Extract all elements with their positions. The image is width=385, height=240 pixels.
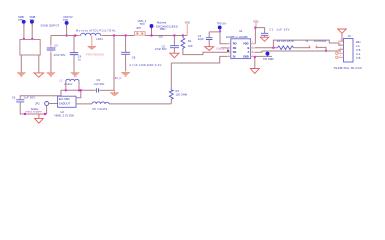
svg-text:L2: L2 (60, 79, 63, 83)
svg-text:3: 3 (228, 51, 229, 53)
ground open triangle under C4 (205, 47, 214, 51)
svg-text:4: 4 (228, 55, 229, 57)
wire VDD to C1 (255, 28, 264, 34)
power flag PROVISIONAL (86, 36, 105, 57)
svg-text:C1 .1uF 50V: C1 .1uF 50V (269, 28, 290, 32)
pin numbers U1 (228, 42, 253, 57)
svg-text:7: 7 (252, 46, 253, 48)
wire module pin4 down (38, 55, 40, 73)
svg-text:120 OHM: 120 OHM (176, 92, 188, 96)
wire RE tie (221, 48, 228, 52)
svg-text:R2 120 1/8 W: R2 120 1/8 W (277, 39, 294, 43)
junction bottom wire 2 (44, 113, 46, 115)
test point TP9 (217, 21, 228, 32)
svg-text:LDF1: LDF1 (96, 37, 103, 41)
test point TP4 VDD_2 (138, 19, 154, 36)
svg-text:C9: C9 (97, 78, 101, 82)
ground arrow under C7 (71, 73, 80, 76)
power flag VDD right (253, 20, 259, 28)
svg-text:27uF 50V: 27uF 50V (155, 47, 167, 51)
svg-text:CAL_1: CAL_1 (216, 47, 224, 51)
resistor R2 (277, 39, 294, 49)
terminal block J3 (344, 34, 354, 62)
junction on module top right (31, 38, 33, 40)
wire U1 A line (255, 49, 344, 52)
svg-text:TP9 IO+: TP9 IO+ (217, 21, 228, 25)
oscillator U2 box (58, 96, 76, 107)
svg-text:VDD: VDD (243, 41, 249, 45)
svg-text:2: 2 (340, 44, 341, 46)
pin stubs U1 right (251, 44, 255, 57)
wire R4 to U1 DI (171, 56, 227, 89)
inductor 38 OHMS (92, 102, 109, 111)
wire R2 to J1 (294, 47, 309, 49)
svg-text:GNDOUT: GNDOUT (59, 102, 71, 106)
svg-text:1: 1 (340, 40, 341, 42)
ground open triangle (34, 73, 44, 77)
svg-text:C A: C A (356, 52, 360, 56)
jumper JP2 (31, 101, 58, 110)
svg-text:TERMINAL BLOCK: TERMINAL BLOCK (334, 66, 363, 70)
pin numbers J3 (340, 40, 341, 58)
svg-text:PBD: PBD (160, 27, 166, 31)
jumper J1 (306, 39, 327, 48)
svg-text:TPI GND: TPI GND (263, 57, 274, 61)
wire U2 vdd pin (76, 90, 81, 97)
part text Molveta (156, 20, 178, 31)
svg-text:JUMPER: JUMPER (314, 39, 327, 43)
ground open triangle under C1 (260, 37, 268, 41)
svg-text:C3: C3 (54, 44, 58, 48)
junction osc feed (113, 34, 115, 36)
chassis ground J3 (338, 29, 347, 41)
svg-text:TP4: TP4 (140, 22, 145, 26)
pin stubs U1 left (227, 44, 231, 57)
junction VDD (254, 26, 256, 28)
wire C6 bottom (20, 102, 46, 114)
svg-text:B: B (248, 46, 250, 50)
wire TP5 to module (23, 24, 25, 39)
junction C7 rail (74, 34, 76, 36)
junction A line (325, 50, 327, 52)
svg-text:.1uF 50V: .1uF 50V (93, 82, 104, 86)
svg-text:C6: C6 (12, 95, 16, 99)
svg-text:VDD: VDD (185, 21, 191, 25)
capacitor C6 (12, 95, 36, 102)
svg-text:27uF 50V: 27uF 50V (54, 53, 66, 57)
svg-text:1u: 1u (78, 57, 81, 61)
svg-text:DI: DI (233, 54, 236, 58)
ground open triangle U1 GND (250, 69, 259, 74)
svg-text:JP2: JP2 (35, 101, 40, 105)
test point TP5 (18, 15, 26, 26)
capacitor C4 22pF (198, 32, 213, 47)
svg-text:+5D_D: +5D_D (113, 76, 121, 80)
svg-text:Monota MTDLP1117DHL: Monota MTDLP1117DHL (76, 28, 116, 32)
svg-text:A: A (248, 50, 250, 54)
capacitor C9 series (93, 78, 104, 92)
wire VDD to U1 pin (254, 28, 256, 44)
test point TP8 GND (263, 52, 274, 62)
svg-text:38 OHMS: 38 OHMS (92, 107, 108, 111)
junction bottom wire (24, 113, 26, 115)
svg-text:E/O VDD: E/O VDD (59, 97, 70, 101)
resistor R4 (169, 89, 187, 104)
ground open triangle bottom (35, 114, 44, 123)
svg-text:C B: C B (356, 48, 361, 52)
svg-text:Solder: Solder (31, 107, 39, 111)
svg-text:L A: L A (356, 44, 360, 48)
ground arrow filled (17, 73, 26, 76)
wire TP2 to module (31, 24, 33, 39)
pin stubs J3 (338, 41, 344, 57)
wire TP6 to rail (66, 25, 68, 36)
svg-text:RE: RE (233, 46, 237, 50)
svg-text:4: 4 (340, 52, 341, 54)
svg-text:J1: J1 (306, 39, 309, 43)
svg-text:8: 8 (252, 42, 253, 44)
ground arrow under C3 (47, 73, 56, 76)
junction coil left (65, 89, 67, 91)
module PS1 box (20, 40, 40, 56)
svg-text:GND: GND (243, 54, 249, 58)
svg-text:2: 2 (228, 46, 229, 48)
svg-text:PROVISIONAL: PROVISIONAL (86, 52, 105, 56)
wire J1 to A line (318, 47, 326, 50)
power flag VDD left (185, 21, 191, 36)
op-amp U1 transceiver (226, 29, 251, 59)
wire U1 GND (255, 55, 272, 57)
capacitor C7 (70, 36, 82, 73)
test point TP2 (30, 15, 36, 26)
wire C9 to arrow (99, 89, 114, 91)
svg-text:30KB DEPOT: 30KB DEPOT (41, 23, 60, 27)
test point TP6 (63, 15, 73, 27)
svg-text:5: 5 (252, 55, 253, 57)
capacitor C3 (47, 36, 66, 73)
svg-text:10K: 10K (188, 44, 193, 48)
wire U1 B line (255, 47, 278, 49)
svg-text:RO: RO (233, 41, 237, 45)
wire R1 to U1 DE (183, 50, 227, 55)
junction B branch (272, 47, 274, 49)
svg-text:Molveta: Molveta (157, 20, 167, 24)
svg-text:C8: C8 (132, 56, 136, 60)
junction TP6 rail (65, 34, 67, 36)
svg-text:U1: U1 (239, 29, 243, 33)
svg-text:4.7uF LOW ESR 6.3V: 4.7uF LOW ESR 6.3V (129, 63, 162, 67)
capacitor C5 (155, 34, 179, 53)
wire U2 out (76, 103, 171, 105)
capacitor C1 (261, 28, 290, 38)
svg-text:JP5: JP5 (136, 26, 141, 30)
svg-text:WH: WH (356, 40, 360, 44)
wire RO net (209, 32, 228, 44)
wire module pin3 down (20, 55, 22, 73)
junction C8 rail (124, 34, 126, 36)
svg-text:302: 302 (158, 35, 163, 39)
svg-text:J3: J3 (348, 34, 351, 38)
wire B to terminal (273, 40, 343, 48)
svg-text:+5 Emr: +5 Emr (64, 82, 73, 86)
wire rail to oscillator supply (113, 36, 115, 91)
junction TP4 rail (150, 34, 152, 36)
wire C6 top to osc supply (20, 90, 95, 100)
ground arrow under C8 (121, 72, 130, 75)
svg-text:HU485 or HLI485: HU485 or HLI485 (226, 35, 248, 39)
junction coil right (78, 89, 80, 91)
junction U2 vdd (80, 89, 82, 91)
power arrow osc supply (110, 93, 119, 96)
svg-text:C B: C B (356, 56, 361, 60)
svg-text:6: 6 (252, 51, 253, 53)
power rail 5V (51, 35, 187, 37)
svg-text:DE: DE (233, 50, 237, 54)
solder jumper JP5 (134, 26, 145, 35)
inductor LDF1 (76, 28, 116, 41)
resistor R1 (181, 34, 193, 49)
capacitor C8 (121, 36, 162, 72)
svg-text:3: 3 (340, 48, 341, 50)
svg-text:NM3L 3.3V E00: NM3L 3.3V E00 (55, 113, 75, 117)
svg-text:1: 1 (228, 42, 229, 44)
junction RE-DE tie (227, 50, 229, 52)
pin circles J3 (336, 52, 338, 58)
svg-text:R1: R1 (188, 39, 192, 43)
svg-text:22pF: 22pF (198, 37, 204, 41)
inductor L2 ferrite (60, 79, 80, 91)
junction on module top left (23, 38, 25, 40)
terminal wire labels (356, 40, 361, 60)
svg-text:5: 5 (340, 56, 341, 58)
ground open triangle under C5 (170, 53, 179, 58)
